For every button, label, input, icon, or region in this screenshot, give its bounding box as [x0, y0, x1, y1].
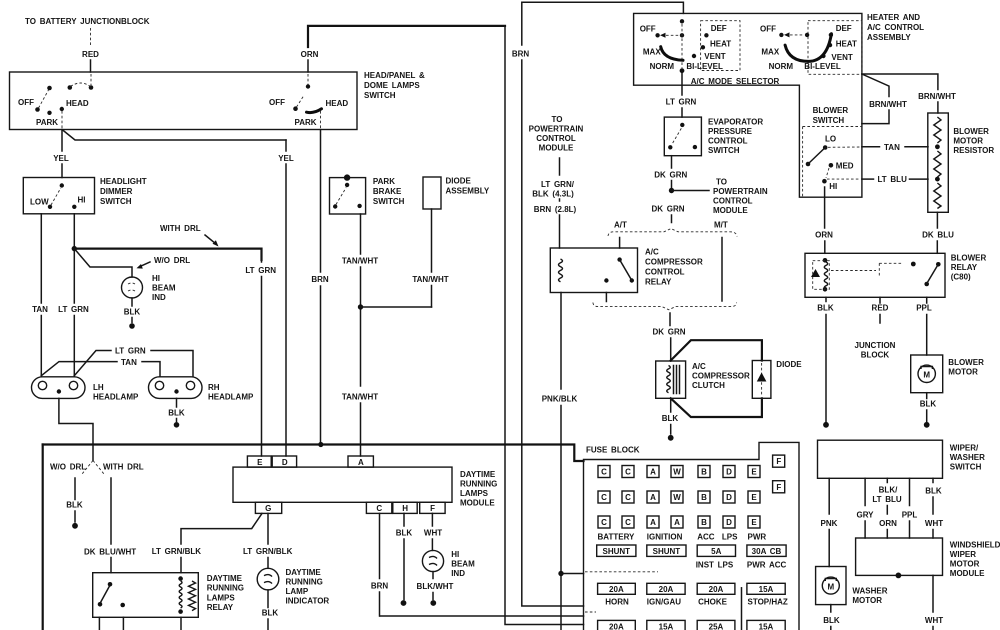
- headlight dimmer switch: [23, 177, 146, 214]
- wire: BLK - WHT: [925, 478, 943, 538]
- svg-text:HI: HI: [451, 550, 459, 559]
- svg-text:C: C: [601, 468, 607, 477]
- svg-text:BLK (4.3L): BLK (4.3L): [532, 190, 574, 199]
- svg-text:BLK: BLK: [66, 501, 83, 510]
- svg-text:ORN: ORN: [815, 231, 833, 240]
- wire: ORN from head switch to fuse block: [301, 26, 584, 625]
- svg-text:MOTOR: MOTOR: [852, 596, 882, 605]
- svg-text:(C80): (C80): [951, 273, 971, 282]
- svg-text:F: F: [776, 457, 781, 466]
- wire: YEL branch to DRL module terminal D: [62, 130, 294, 457]
- svg-text:CONTROL: CONTROL: [645, 268, 685, 277]
- wire: LT BLU from blower switch to resistor: [862, 175, 928, 184]
- wire: clutch top rail to diode: [671, 340, 762, 360]
- svg-text:LH: LH: [93, 383, 104, 392]
- fuse block terminal F cavities: [773, 455, 785, 493]
- svg-text:W/O DRL: W/O DRL: [154, 256, 190, 265]
- diode: [752, 360, 802, 398]
- wire: BLK ground from blower motor: [920, 393, 937, 428]
- head/panel and dome lamps switch box: [10, 71, 425, 130]
- wire: BRN from DRL module C: [371, 513, 389, 616]
- wire: WITH DRL line to DRL module terminal E: [74, 224, 276, 456]
- svg-text:WIPER/: WIPER/: [950, 444, 979, 453]
- wire: RED to junction block: [855, 297, 896, 359]
- svg-text:15A: 15A: [659, 622, 674, 630]
- svg-text:WINDSHIELD: WINDSHIELD: [950, 541, 1000, 550]
- wire: BLK/LT BLU - ORN: [872, 478, 902, 538]
- svg-text:PARK: PARK: [373, 177, 395, 186]
- node: A/T and M/T alternative brace: [608, 221, 737, 237]
- DRL module terminal A: [348, 456, 373, 467]
- wire: YEL to headlight dimmer switch: [53, 130, 69, 178]
- svg-text:CONTROL: CONTROL: [708, 137, 748, 146]
- svg-text:PARK: PARK: [36, 118, 58, 127]
- svg-text:HEADLAMP: HEADLAMP: [93, 393, 139, 402]
- wire: relay output stub: [605, 293, 607, 302]
- daytime running lamp indicator: [257, 568, 329, 606]
- a/c mode selector right rotary: [760, 21, 862, 75]
- svg-text:D: D: [282, 458, 288, 467]
- svg-text:PNK/BLK: PNK/BLK: [542, 395, 578, 404]
- DRL module terminal G: [255, 502, 281, 513]
- svg-text:WIPER: WIPER: [950, 550, 976, 559]
- wire: LT GRN crossover to RH headlamp: [74, 347, 193, 376]
- svg-text:ACC: ACC: [697, 533, 715, 542]
- svg-text:WHT: WHT: [925, 519, 943, 528]
- svg-text:HEADLIGHT: HEADLIGHT: [100, 177, 147, 186]
- wire: PNK/BLK from relay to fuse block: [542, 293, 584, 630]
- svg-text:BLK/WHT: BLK/WHT: [417, 582, 454, 591]
- DRL module terminal H: [393, 502, 417, 513]
- wire: W/O DRL branch to hi beam indicator: [74, 249, 190, 277]
- svg-text:FUSE BLOCK: FUSE BLOCK: [586, 446, 640, 455]
- wire: DK BLU from resistor to blower relay: [922, 212, 954, 253]
- svg-text:COMPRESSOR: COMPRESSOR: [692, 372, 750, 381]
- wire: PPL to blower motor: [916, 297, 932, 355]
- svg-text:DOME LAMPS: DOME LAMPS: [364, 81, 420, 90]
- svg-text:INDICATOR: INDICATOR: [286, 597, 330, 606]
- wire: DK GRN from evaporator switch with PCM branch: [654, 156, 709, 194]
- daytime running lamps module: [233, 467, 497, 507]
- wire: BLK/WHT ground from hi beam ind: [417, 572, 454, 606]
- svg-text:W: W: [673, 493, 681, 502]
- svg-text:B: B: [701, 518, 707, 527]
- svg-text:G: G: [265, 504, 271, 513]
- svg-text:MOTOR: MOTOR: [953, 137, 983, 146]
- svg-text:MAX: MAX: [761, 48, 779, 57]
- svg-text:TAN: TAN: [121, 358, 137, 367]
- svg-text:PPL: PPL: [902, 511, 918, 520]
- wire: WHT from wiper module: [925, 575, 943, 630]
- svg-text:HEADLAMP: HEADLAMP: [208, 393, 254, 402]
- svg-text:SHUNT: SHUNT: [603, 547, 631, 556]
- svg-text:DIODE: DIODE: [776, 360, 802, 369]
- svg-text:BLK: BLK: [925, 487, 942, 496]
- svg-text:TAN: TAN: [32, 305, 48, 314]
- wire: clutch bottom rail to diode: [671, 398, 762, 417]
- svg-text:A/C CONTROL: A/C CONTROL: [867, 23, 924, 32]
- wire: WITH DRL / DK BLU/WHT to DRL relay: [84, 478, 136, 573]
- evaporator pressure control switch: [664, 117, 763, 156]
- svg-text:W: W: [673, 468, 681, 477]
- svg-text:HORN: HORN: [605, 598, 629, 607]
- svg-text:SWITCH: SWITCH: [813, 116, 845, 125]
- svg-text:HI: HI: [152, 274, 160, 283]
- svg-text:BLOWER: BLOWER: [948, 358, 984, 367]
- svg-text:WHT: WHT: [925, 616, 943, 625]
- svg-text:LPS: LPS: [722, 533, 738, 542]
- svg-text:C: C: [601, 518, 607, 527]
- wire: BLK ground from blower relay: [817, 297, 834, 427]
- heater and a/c control assembly box: [634, 13, 925, 197]
- head switch left rotary contacts: [18, 74, 93, 128]
- svg-text:TO BATTERY JUNCTIONBLOCK: TO BATTERY JUNCTIONBLOCK: [25, 17, 150, 26]
- blower relay (C80): [805, 253, 986, 297]
- hi beam indicator lamp: [122, 274, 176, 302]
- wire: ORN from blower switch to blower relay: [815, 187, 833, 253]
- svg-text:C: C: [625, 468, 631, 477]
- node: fuse block interior dashes: [585, 572, 658, 612]
- DRL module terminal F: [420, 502, 445, 513]
- svg-text:HEAD: HEAD: [66, 99, 89, 108]
- svg-text:LT GRN: LT GRN: [666, 98, 697, 107]
- svg-text:INST LPS: INST LPS: [696, 561, 734, 570]
- wire: PPL: [902, 478, 918, 538]
- svg-text:MOTOR: MOTOR: [950, 560, 980, 569]
- wire: LT GRN/BLK from G to DRL indicator: [243, 513, 293, 568]
- svg-text:CLUTCH: CLUTCH: [692, 381, 725, 390]
- svg-text:RUNNING: RUNNING: [286, 578, 323, 587]
- a/c compressor control relay: [550, 248, 703, 293]
- svg-text:20A: 20A: [609, 585, 624, 594]
- svg-text:A: A: [650, 468, 656, 477]
- svg-text:LT BLU: LT BLU: [872, 495, 902, 504]
- svg-text:YEL: YEL: [278, 154, 294, 163]
- svg-text:LT GRN/BLK: LT GRN/BLK: [243, 547, 293, 556]
- wire: BRN/WHT return to blower switch: [862, 74, 907, 124]
- DRL module terminal E: [247, 456, 271, 467]
- fuse block terminal cavity rows: [598, 466, 760, 529]
- svg-text:POWERTRAIN: POWERTRAIN: [713, 187, 768, 196]
- washer motor: [816, 567, 888, 606]
- wire: GRY: [856, 478, 874, 538]
- svg-text:F: F: [430, 504, 435, 513]
- svg-text:WITH DRL: WITH DRL: [103, 463, 144, 472]
- svg-text:BLK: BLK: [920, 400, 937, 409]
- svg-text:RUNNING: RUNNING: [207, 584, 244, 593]
- wire: TAN from blower switch to resistor: [862, 143, 928, 152]
- svg-text:M: M: [923, 371, 930, 380]
- svg-text:LT GRN/: LT GRN/: [541, 180, 575, 189]
- wire: BRN long run from heater assembly to fuse block: [512, 2, 684, 606]
- park brake switch: [330, 174, 405, 214]
- wire: BLK from washer motor: [823, 605, 840, 630]
- svg-text:IGN/GAU: IGN/GAU: [647, 598, 681, 607]
- svg-text:SWITCH: SWITCH: [950, 463, 982, 472]
- svg-text:DK GRN: DK GRN: [651, 205, 684, 214]
- svg-text:DK GRN: DK GRN: [652, 328, 685, 337]
- svg-text:BRN: BRN: [311, 275, 329, 284]
- svg-text:LAMPS: LAMPS: [460, 489, 489, 498]
- svg-text:BLK: BLK: [662, 414, 679, 423]
- svg-text:LO: LO: [825, 135, 836, 144]
- hi beam indicator (right): [422, 550, 475, 578]
- a/c mode selector left rotary: [640, 19, 740, 73]
- svg-text:RELAY: RELAY: [951, 263, 978, 272]
- DRL module terminal C: [366, 502, 391, 513]
- head switch right rotary contacts: [269, 74, 348, 128]
- svg-text:D: D: [726, 468, 732, 477]
- svg-text:BRN (2.8L): BRN (2.8L): [534, 205, 577, 214]
- svg-text:M/T: M/T: [714, 221, 728, 230]
- svg-text:LAMPS: LAMPS: [207, 593, 236, 602]
- svg-text:20A: 20A: [709, 585, 724, 594]
- svg-text:BLK: BLK: [823, 616, 840, 625]
- svg-text:ORN: ORN: [301, 50, 319, 59]
- svg-text:EVAPORATOR: EVAPORATOR: [708, 118, 763, 127]
- svg-text:MOTOR: MOTOR: [948, 368, 978, 377]
- wire: LT GRN from dimmer hi: [58, 214, 89, 376]
- fuse block cavity group labels: [598, 533, 767, 542]
- svg-text:LT GRN: LT GRN: [58, 305, 89, 314]
- svg-text:D: D: [726, 518, 732, 527]
- wire: BRN from head switch to DRL area: [311, 130, 329, 448]
- svg-text:LT GRN: LT GRN: [245, 266, 276, 275]
- wire: WHT from DRL module F to hi beam ind: [424, 513, 442, 550]
- svg-text:TAN/WHT: TAN/WHT: [412, 275, 448, 284]
- svg-text:MODULE: MODULE: [539, 144, 574, 153]
- svg-text:CONTROL: CONTROL: [713, 197, 753, 206]
- svg-text:ORN: ORN: [879, 519, 897, 528]
- svg-text:A: A: [650, 518, 656, 527]
- svg-text:BI-LEVEL: BI-LEVEL: [686, 62, 723, 71]
- node: to powertrain control module (lower): [713, 178, 768, 216]
- svg-text:15A: 15A: [759, 622, 774, 630]
- svg-text:C: C: [625, 493, 631, 502]
- svg-text:5A: 5A: [711, 547, 721, 556]
- svg-text:RELAY: RELAY: [207, 603, 234, 612]
- svg-text:BRN: BRN: [371, 582, 389, 591]
- blower switch: [803, 106, 862, 197]
- svg-text:IGNITION: IGNITION: [647, 533, 683, 542]
- svg-text:C: C: [625, 518, 631, 527]
- svg-text:TAN/WHT: TAN/WHT: [342, 393, 378, 402]
- svg-text:A: A: [358, 458, 364, 467]
- node: closing dashed brace below relay: [593, 303, 737, 362]
- svg-text:SWITCH: SWITCH: [708, 146, 740, 155]
- svg-text:BLK: BLK: [262, 609, 279, 618]
- svg-text:PRESSURE: PRESSURE: [708, 127, 753, 136]
- svg-text:MODULE: MODULE: [950, 569, 985, 578]
- svg-text:HEAD/PANEL &: HEAD/PANEL &: [364, 71, 425, 80]
- svg-text:DIMMER: DIMMER: [100, 187, 133, 196]
- svg-text:BRN: BRN: [512, 50, 530, 59]
- wire: TAN from dimmer low: [32, 214, 48, 376]
- svg-text:C: C: [376, 504, 382, 513]
- svg-text:SWITCH: SWITCH: [364, 91, 396, 100]
- svg-text:LAMP: LAMP: [286, 587, 309, 596]
- svg-text:BLOCK: BLOCK: [861, 351, 890, 360]
- svg-text:BLK: BLK: [168, 409, 185, 418]
- wire: DRL section top bus / box top edge: [43, 445, 584, 462]
- wire: LH headlamp ground lead into DRL section: [59, 398, 93, 460]
- svg-text:BLOWER: BLOWER: [951, 254, 987, 263]
- svg-text:A: A: [650, 493, 656, 502]
- svg-text:VENT: VENT: [831, 53, 852, 62]
- svg-text:TAN/WHT: TAN/WHT: [342, 257, 378, 266]
- svg-text:STOP/HAZ: STOP/HAZ: [748, 598, 788, 607]
- svg-text:15A: 15A: [759, 585, 774, 594]
- svg-text:IND: IND: [451, 569, 465, 578]
- svg-text:30A CB: 30A CB: [752, 547, 782, 556]
- svg-text:C: C: [601, 493, 607, 502]
- svg-text:IND: IND: [152, 293, 166, 302]
- daytime running lamps relay: [93, 573, 244, 618]
- svg-text:E: E: [257, 458, 263, 467]
- svg-text:HEAT: HEAT: [836, 40, 857, 49]
- svg-text:25A: 25A: [709, 622, 724, 630]
- svg-text:HEATER AND: HEATER AND: [867, 13, 920, 22]
- DRL module terminal D: [272, 456, 296, 467]
- svg-text:BEAM: BEAM: [152, 284, 176, 293]
- wire: M/T lead: [721, 238, 723, 302]
- svg-text:BRAKE: BRAKE: [373, 187, 402, 196]
- svg-text:LT GRN/BLK: LT GRN/BLK: [152, 547, 202, 556]
- svg-text:F: F: [776, 483, 781, 492]
- svg-text:SWITCH: SWITCH: [373, 197, 405, 206]
- svg-text:HEAD: HEAD: [326, 99, 349, 108]
- svg-text:LT GRN: LT GRN: [115, 347, 146, 356]
- svg-text:RH: RH: [208, 383, 220, 392]
- svg-text:POWERTRAIN: POWERTRAIN: [529, 125, 584, 134]
- svg-text:GRY: GRY: [856, 511, 874, 520]
- svg-text:PPL: PPL: [916, 304, 932, 313]
- svg-text:20A: 20A: [609, 622, 624, 630]
- svg-text:WASHER: WASHER: [950, 453, 985, 462]
- svg-text:PWR ACC: PWR ACC: [747, 561, 787, 570]
- svg-text:NORM: NORM: [769, 62, 794, 71]
- svg-text:MAX: MAX: [643, 48, 661, 57]
- svg-text:A/C MODE SELECTOR: A/C MODE SELECTOR: [691, 77, 780, 86]
- wire: BLK ground from DRL module H: [396, 513, 413, 605]
- svg-text:RED: RED: [872, 304, 889, 313]
- svg-text:BLK: BLK: [124, 308, 141, 317]
- svg-text:JUNCTION: JUNCTION: [855, 341, 896, 350]
- svg-text:DK BLU/WHT: DK BLU/WHT: [84, 548, 136, 557]
- svg-text:VENT: VENT: [704, 52, 725, 61]
- wire: TAN/WHT from park brake to DRL module terminal A: [342, 214, 378, 456]
- LH headlamp: [32, 377, 139, 402]
- fuse block shunt row: [597, 545, 787, 570]
- svg-text:BLK: BLK: [817, 304, 834, 313]
- svg-text:LT BLU: LT BLU: [878, 175, 908, 184]
- svg-text:A/T: A/T: [614, 221, 627, 230]
- fuse block outline: [584, 442, 800, 630]
- blower motor resistor: [928, 113, 995, 212]
- wire: BLK ground from hi beam indicator: [124, 298, 141, 329]
- svg-text:LOW: LOW: [30, 198, 49, 207]
- svg-text:A/C: A/C: [692, 362, 706, 371]
- svg-text:H: H: [402, 504, 408, 513]
- svg-text:BLOWER: BLOWER: [953, 127, 989, 136]
- svg-text:OFF: OFF: [269, 98, 285, 107]
- wire: BRN bus from DRL module C to fuse block: [380, 615, 584, 617]
- svg-text:TO: TO: [552, 115, 563, 124]
- svg-text:OFF: OFF: [760, 25, 776, 34]
- svg-text:TAN: TAN: [884, 143, 900, 152]
- wire: PNK from wiper switch to washer motor: [821, 478, 838, 566]
- svg-text:DEF: DEF: [836, 24, 852, 33]
- wire: TAN crossover to RH headlamp: [41, 358, 160, 376]
- svg-text:MODULE: MODULE: [713, 206, 748, 215]
- node: DRL section outer box left edge: [42, 445, 44, 630]
- svg-text:BLK/: BLK/: [879, 486, 898, 495]
- diode assembly: [423, 177, 490, 210]
- wire: BLK from DRL indicator: [262, 590, 279, 630]
- wiper/washer switch: [818, 440, 986, 478]
- svg-text:HI: HI: [78, 196, 86, 205]
- svg-text:ASSEMBLY: ASSEMBLY: [867, 33, 911, 42]
- svg-text:CONTROL: CONTROL: [536, 134, 576, 143]
- wire: BLK ground from clutch: [662, 398, 679, 440]
- svg-text:DIODE: DIODE: [446, 177, 472, 186]
- svg-text:A: A: [674, 518, 680, 527]
- wire: LT GRN from a/c mode selector to evaporator switch: [666, 73, 697, 118]
- svg-text:PNK: PNK: [821, 519, 838, 528]
- svg-text:E: E: [751, 468, 757, 477]
- svg-text:MED: MED: [836, 162, 854, 171]
- svg-text:DEF: DEF: [711, 24, 727, 33]
- wire: A/T lead into compressor relay: [619, 238, 621, 249]
- RH headlamp: [149, 377, 254, 402]
- svg-text:DAYTIME: DAYTIME: [207, 574, 243, 583]
- svg-text:RELAY: RELAY: [645, 278, 672, 287]
- svg-text:D: D: [726, 493, 732, 502]
- blower motor: [911, 355, 984, 393]
- svg-text:PWR: PWR: [748, 533, 767, 542]
- svg-text:B: B: [701, 468, 707, 477]
- svg-text:HEAT: HEAT: [710, 40, 731, 49]
- node: to battery junction block lead: [25, 17, 150, 72]
- svg-text:PARK: PARK: [295, 118, 317, 127]
- wire: BLK ground from RH headlamp: [168, 398, 185, 427]
- a/c compressor clutch: [656, 361, 750, 398]
- svg-text:BATTERY: BATTERY: [598, 533, 636, 542]
- svg-text:B: B: [701, 493, 707, 502]
- svg-text:DK GRN: DK GRN: [654, 171, 687, 180]
- svg-text:M: M: [827, 582, 834, 591]
- svg-text:RESISTOR: RESISTOR: [953, 146, 994, 155]
- windshield wiper motor module: [856, 538, 1000, 578]
- fuse row: horn/ign/choke/stop: [598, 583, 788, 606]
- svg-text:CHOKE: CHOKE: [698, 598, 728, 607]
- svg-text:TO: TO: [716, 178, 727, 187]
- svg-text:SWITCH: SWITCH: [100, 197, 132, 206]
- wire: DK GRN below junction: [651, 205, 684, 223]
- svg-text:HI: HI: [829, 182, 837, 191]
- svg-text:BRN/WHT: BRN/WHT: [918, 92, 956, 101]
- svg-text:E: E: [751, 493, 757, 502]
- wire: W/O DRL BLK ground: [66, 478, 83, 529]
- svg-text:BRN/WHT: BRN/WHT: [869, 100, 907, 109]
- svg-text:20A: 20A: [659, 585, 674, 594]
- svg-text:RUNNING: RUNNING: [460, 480, 497, 489]
- svg-text:COMPRESSOR: COMPRESSOR: [645, 258, 703, 267]
- svg-text:A/C: A/C: [645, 248, 659, 257]
- svg-text:DK BLU: DK BLU: [922, 231, 954, 240]
- svg-text:DAYTIME: DAYTIME: [460, 470, 496, 479]
- node: stop/haz column divider: [741, 588, 743, 630]
